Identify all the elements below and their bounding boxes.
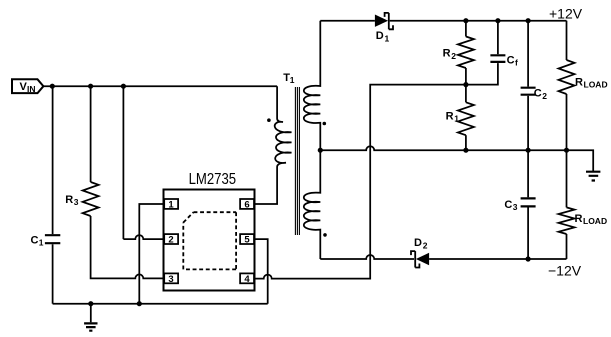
svg-text:1: 1 [385, 33, 390, 43]
svg-text:5: 5 [244, 235, 250, 246]
wire C1 branch [52, 86, 54, 234]
capacitor C1 [31, 234, 61, 247]
svg-text:1: 1 [168, 200, 174, 211]
wire secondary top to D1 [320, 20, 375, 22]
node T1 primary phase dot [267, 118, 271, 122]
node VIN junction R3 [88, 84, 93, 89]
node mid rail center tap [318, 148, 323, 153]
wire bottom rail right [429, 258, 566, 260]
wire RLOAD bottom top lead [566, 150, 568, 207]
svg-text:2: 2 [168, 235, 173, 246]
pin 4 [240, 273, 254, 285]
svg-text:1: 1 [39, 237, 44, 247]
wire mid rail [320, 146, 593, 171]
resistor R1 [446, 102, 474, 135]
svg-text:R: R [446, 110, 454, 122]
node bottom rail C3 [526, 256, 531, 261]
wire pin1 to ground rail [139, 204, 163, 304]
svg-text:3: 3 [513, 202, 518, 212]
wire bottom rail left [320, 255, 414, 259]
inductor T1 primary [275, 86, 292, 167]
svg-text:C: C [504, 199, 512, 211]
svg-text:3: 3 [74, 197, 79, 207]
wire R3 bottom to pin3 [91, 216, 164, 278]
wire R2 bottom lead [465, 68, 467, 85]
pin 5 [240, 234, 254, 246]
node ground rail gnd [88, 301, 93, 306]
wire R1 top lead [465, 85, 467, 103]
wire Cf top lead [497, 21, 499, 55]
svg-text:D: D [414, 237, 422, 249]
node mid rail R1 [463, 148, 468, 153]
pin 1 [164, 199, 178, 211]
svg-text:R: R [65, 194, 73, 206]
svg-text:D: D [376, 30, 384, 42]
wire +12V rail [390, 20, 567, 22]
resistor RLOAD bottom [559, 207, 608, 234]
svg-text:R: R [575, 213, 583, 225]
svg-text:3: 3 [168, 274, 173, 285]
node VIN junction C1 [50, 84, 55, 89]
resistor R3 [65, 182, 98, 216]
wire VIN top rail [43, 85, 277, 87]
svg-text:1: 1 [290, 75, 295, 85]
pin 6 [240, 199, 254, 211]
svg-text:R: R [575, 76, 583, 88]
wire RLOAD top bottom lead [566, 94, 568, 150]
node mid rail RLOAD [564, 148, 569, 153]
svg-text:C: C [507, 54, 515, 66]
wire C3 bottom lead [527, 208, 529, 260]
svg-text:C: C [31, 234, 39, 246]
svg-text:+12V: +12V [549, 5, 583, 21]
node ground rail pin1 [137, 301, 142, 306]
transformer T1 [283, 72, 295, 85]
wire RLOAD top lead [566, 21, 568, 60]
capacitor Cf [490, 54, 518, 67]
inductor T1 secondary bottom [304, 150, 321, 259]
svg-text:2: 2 [542, 91, 547, 101]
wire C2 top lead [527, 21, 529, 87]
pin 2 [164, 234, 178, 246]
svg-text:f: f [515, 58, 518, 68]
inductor T1 secondary top [304, 21, 321, 151]
node VIN junction pin2 [121, 84, 126, 89]
node feedback junction [463, 82, 468, 87]
svg-text:1: 1 [454, 114, 459, 124]
svg-text:2: 2 [451, 51, 456, 61]
wire pin5 to ground rail [256, 239, 268, 304]
diode D2 [411, 237, 429, 267]
node +12V rail R2 [463, 18, 468, 23]
wire C1 bottom [52, 244, 54, 303]
wire C2 bottom lead [527, 96, 529, 150]
VIN tag [12, 79, 43, 94]
svg-text:2: 2 [423, 241, 428, 251]
node T1 secondary top phase dot [323, 122, 327, 126]
svg-text:LOAD: LOAD [583, 216, 607, 226]
ground right [586, 172, 600, 181]
capacitor C2 [521, 88, 548, 102]
ground [84, 304, 97, 331]
node mid rail C2 C3 [526, 148, 531, 153]
svg-text:−12V: −12V [548, 263, 582, 279]
IC U1 LM2735 [164, 171, 255, 290]
wire pin2 to IC [123, 235, 163, 239]
svg-text:R: R [443, 48, 451, 60]
wire pin6 to primary [256, 167, 278, 204]
resistor RLOAD top [559, 60, 608, 94]
svg-text:C: C [534, 88, 542, 100]
svg-text:LM2735: LM2735 [189, 171, 237, 188]
node T1 secondary bottom phase dot [323, 233, 327, 237]
svg-text:6: 6 [244, 200, 249, 211]
wire C3 top lead [527, 150, 529, 197]
wire pin2 branch [122, 86, 124, 239]
svg-text:IN: IN [27, 84, 36, 94]
pin 3 [164, 273, 178, 285]
transformer T1 core [295, 87, 299, 235]
capacitor C3 [504, 198, 535, 212]
diode D1 [375, 13, 393, 44]
node +12V rail C2 [526, 18, 531, 23]
wire R3 top lead [90, 86, 92, 182]
wire R1 bottom lead [465, 135, 467, 150]
node +12V rail Cf [495, 18, 500, 23]
svg-text:4: 4 [244, 274, 250, 285]
resistor R2 [443, 37, 474, 69]
svg-text:LOAD: LOAD [584, 79, 608, 89]
wire ground rail [53, 303, 268, 305]
wire R2 top lead [465, 21, 467, 37]
wire RLOAD bottom bottom lead [566, 234, 568, 259]
wire pin4 feedback [256, 63, 498, 279]
